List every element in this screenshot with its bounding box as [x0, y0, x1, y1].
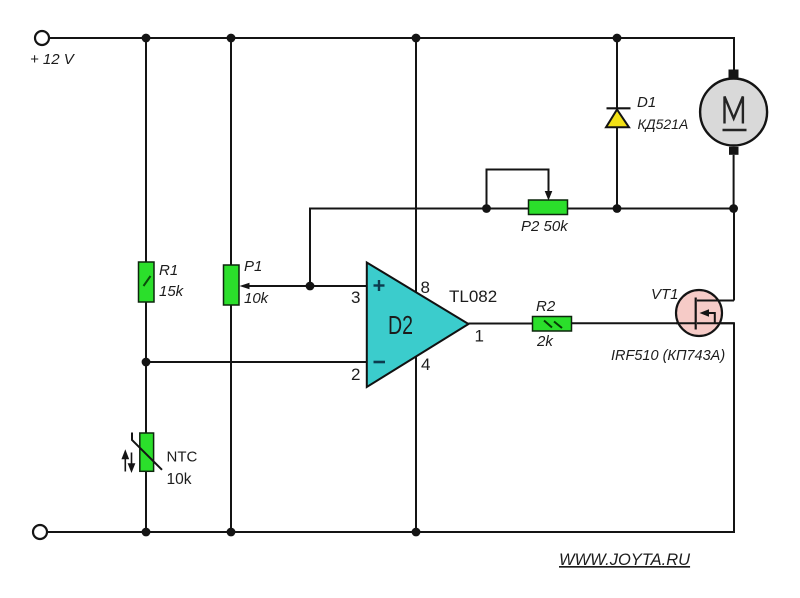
wire bottom rail [47, 323, 734, 532]
wire P2 net horizontal [487, 208, 735, 210]
motor bottom terminal [729, 147, 739, 155]
svg-text:P2 50k: P2 50k [521, 218, 569, 235]
svg-text:КД521А: КД521А [638, 116, 689, 132]
svg-text:4: 4 [421, 355, 430, 374]
svg-text:IRF510 (КП743А): IRF510 (КП743А) [611, 348, 725, 364]
wire R1 branch upper [145, 38, 147, 263]
svg-text:8: 8 [421, 278, 430, 297]
transistor Q1 VT1 body [676, 290, 722, 336]
svg-text:P1: P1 [244, 258, 262, 275]
svg-text:WWW.JOYTA.RU: WWW.JOYTA.RU [559, 551, 690, 569]
svg-text:3: 3 [351, 288, 360, 307]
node wiper-feedback junction [306, 282, 315, 291]
node bottom rail NTC [142, 528, 151, 537]
terminal GND [33, 525, 47, 539]
svg-text:+ 12 V: + 12 V [30, 51, 76, 68]
node D1 top rail junction [613, 34, 622, 43]
motor M1 body [700, 79, 767, 146]
svg-text:1: 1 [475, 327, 484, 346]
resistor R2 [533, 317, 572, 332]
NTC diagonal [132, 433, 162, 470]
diode D1 [607, 107, 631, 109]
node D1 bottom junction [613, 204, 622, 213]
wire motor to drain node [733, 155, 735, 209]
node bottom rail P1 [227, 528, 236, 537]
op-amp U1 D2 triangle [367, 263, 469, 388]
P2 wiper arrowhead [545, 191, 553, 201]
svg-text:10k: 10k [244, 290, 270, 307]
wire top +12V rail [49, 38, 734, 70]
svg-text:D1: D1 [637, 94, 656, 111]
VT1 source stub [697, 322, 734, 324]
node P2 left junction [482, 204, 491, 213]
node top rail opamp power [412, 34, 421, 43]
wire inverting input from divider [146, 361, 368, 363]
wire P2 wiper loop [487, 170, 549, 209]
thermistor NTC [140, 433, 154, 471]
node divider junction [142, 358, 151, 367]
svg-text:R2: R2 [536, 298, 556, 315]
svg-text:VT1: VT1 [651, 286, 679, 303]
potentiometer P1 [224, 265, 240, 305]
op-amp plus sign [374, 280, 385, 291]
svg-text:2: 2 [351, 365, 360, 384]
svg-text:10k: 10k [167, 471, 192, 488]
wire D1 branch upper [616, 38, 618, 109]
svg-text:TL082: TL082 [449, 287, 497, 306]
wire D1 to P2 net [616, 126, 618, 209]
wire P1 to bottom rail [230, 305, 232, 532]
op-amp minus sign [374, 361, 386, 364]
svg-text:2k: 2k [536, 333, 554, 350]
node top rail R1 [142, 34, 151, 43]
svg-text:R1: R1 [159, 262, 178, 279]
P1 wiper arrow [247, 285, 367, 287]
wire opamp power vertical [415, 38, 417, 532]
potentiometer P2 [529, 200, 568, 215]
wire drain vertical [733, 209, 735, 301]
svg-text:NTC: NTC [167, 449, 198, 466]
wire R2 to circle edge [572, 322, 681, 324]
node motor-drain junction [729, 204, 738, 213]
svg-text:D2: D2 [388, 310, 413, 340]
motor top terminal [729, 70, 739, 79]
VT1 drain stub [697, 300, 734, 302]
NTC arrows [123, 452, 135, 472]
svg-text:15k: 15k [159, 283, 185, 300]
wire R1 to NTC [145, 301, 147, 434]
VT1 gate bar [695, 298, 697, 330]
resistor R1 [139, 262, 155, 302]
wire NTC to bottom rail [145, 471, 147, 532]
R2 shine marks [544, 321, 552, 328]
VT1 gate lead inside body [676, 322, 695, 324]
motor underline [723, 129, 747, 132]
motor M letter [725, 97, 743, 124]
VT1 substrate arrow [700, 309, 710, 316]
wire opamp output to R2 [469, 323, 534, 325]
R1 shine mark [144, 276, 151, 286]
node bottom rail opamp power [412, 528, 421, 537]
terminal +12V [35, 31, 49, 45]
node top rail P1 [227, 34, 236, 43]
wire P1 branch upper [230, 38, 232, 266]
wire feedback riser [310, 209, 487, 287]
